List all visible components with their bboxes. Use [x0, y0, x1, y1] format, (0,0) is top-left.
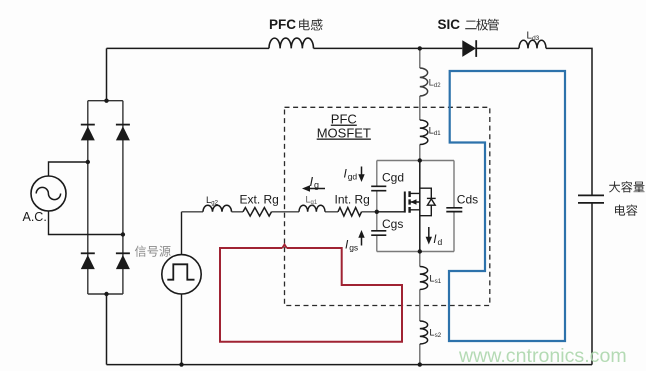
wire bridge right leg — [122, 101, 124, 294]
label 大容量 电容 (bulk capacitor) — [609, 181, 620, 192]
svg-text:PFC: PFC — [269, 17, 296, 32]
svg-text:d: d — [438, 237, 443, 247]
wire gate path segments — [182, 211, 377, 213]
red loop gate drive loop — [220, 245, 402, 342]
current arrow Ig — [306, 188, 325, 190]
capacitor Cds — [446, 208, 462, 212]
svg-text:MOSFET: MOSFET — [317, 126, 371, 141]
current arrow Id — [428, 227, 430, 239]
wire between Ls1 and Ls2 — [419, 290, 421, 322]
diode D1 bridge upper-left — [81, 126, 95, 140]
svg-text:Int. Rg: Int. Rg — [335, 192, 370, 206]
capacitor output bulk cap — [578, 195, 604, 203]
wire between Ld2 and Ld1 — [419, 96, 421, 120]
capacitor Cgs — [371, 231, 386, 235]
inductor PFC coil — [269, 38, 313, 48]
diode body diode of Q1 — [420, 188, 436, 216]
wire bridge top rail — [88, 100, 123, 102]
wire bridge bottom stub to bottom bus — [106, 294, 108, 365]
label 信号源 (signal source) — [135, 246, 146, 257]
inductor Lg1 — [299, 205, 325, 212]
signal source pulse symbol — [167, 264, 194, 279]
resistor Int. Rg — [338, 208, 362, 217]
diode D4 bridge lower-right — [116, 255, 130, 269]
resistor Ext. Rg — [243, 208, 272, 217]
wire drain chain top segment — [419, 48, 421, 68]
wire left drop from top bus to bridge — [106, 48, 108, 100]
dashed box PFC MOSFET outline — [285, 107, 490, 305]
diode D3 bridge lower-left — [81, 255, 95, 269]
svg-text:SIC: SIC — [438, 17, 461, 32]
svg-text:Ext. Rg: Ext. Rg — [240, 192, 279, 206]
inductor Ld3 — [519, 40, 546, 48]
wire signal source top lead — [181, 212, 183, 255]
AC source circle — [31, 176, 66, 211]
wire between box bottom and Ls1 — [419, 252, 421, 267]
svg-text:A.C.: A.C. — [23, 210, 47, 224]
wire Ls2 to bottom bus — [419, 344, 421, 365]
wire bottom bus — [107, 364, 593, 366]
gray box top edge — [377, 160, 454, 162]
svg-text:www.cntronics.com: www.cntronics.com — [458, 345, 627, 367]
wire drain node inside box — [419, 161, 421, 252]
wire right side below output capacitor — [591, 203, 593, 365]
capacitor Cgd — [371, 186, 386, 190]
svg-text:PFC: PFC — [331, 112, 357, 127]
inductor Ld2 — [420, 68, 428, 96]
blue loop power commutation loop — [449, 71, 565, 341]
current arrow Igd — [361, 167, 363, 177]
svg-text:Cgd: Cgd — [382, 170, 404, 184]
wire top bus middle segment — [314, 47, 463, 49]
svg-text:gd: gd — [348, 171, 358, 181]
signal source circle — [162, 255, 201, 294]
wire AC bottom lead to bridge right midpoint — [49, 211, 123, 235]
svg-text:g: g — [314, 180, 319, 190]
node junction dots — [86, 46, 422, 367]
gray box right edge with Cds gap — [453, 161, 455, 252]
diode SiC boost diode — [462, 40, 476, 57]
wire AC top lead to bridge left midpoint — [49, 162, 88, 176]
gray box bottom edge — [377, 251, 454, 253]
inductor Lg2 — [203, 205, 232, 212]
svg-text:gs: gs — [349, 242, 358, 252]
transistor Q1 PFC MOSFET symbol — [377, 191, 420, 213]
svg-text:Cgs: Cgs — [382, 217, 403, 231]
wire top bus left segment — [107, 47, 270, 49]
wire between Ld1 and box top — [419, 145, 421, 161]
svg-text:Cds: Cds — [457, 192, 478, 206]
inductor Ls2 — [420, 321, 428, 344]
AC sine symbol — [36, 187, 60, 199]
gray box internal MOSFET model: left edge with capacitor gaps — [376, 161, 378, 252]
wire top bus to output corner, down right side — [546, 48, 592, 195]
wire signal source bottom lead — [181, 294, 183, 365]
wire bridge left leg — [87, 101, 89, 294]
wire bridge bottom rail — [88, 293, 123, 295]
svg-text:I: I — [310, 174, 314, 189]
diode D2 bridge upper-right — [116, 126, 130, 140]
inductor Ld1 — [420, 120, 428, 145]
inductor Ls1 — [420, 267, 428, 290]
current arrow Igs — [361, 235, 363, 245]
wire top bus right of diode — [476, 47, 519, 49]
